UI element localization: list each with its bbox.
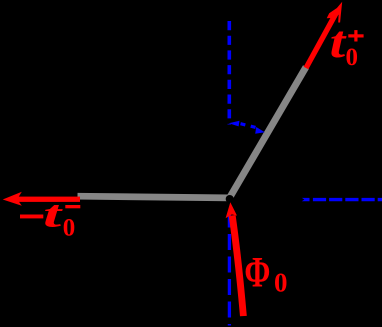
blue dashed vertical line bottom [228,212,231,326]
svg-text:t: t [330,16,347,67]
svg-text:0: 0 [63,214,75,241]
label Phi0 [244,249,287,297]
wire right segment (gray bar at 60 deg) [230,67,307,198]
svg-text:0: 0 [274,268,288,298]
label t0^+ [330,16,364,71]
svg-text:t: t [43,194,63,236]
label -t0^- [20,194,80,242]
svg-text:0: 0 [346,44,359,71]
svg-text:Φ: Φ [244,249,270,296]
blue dashed vertical line top [228,21,232,125]
wire left segment (gray bar) [78,196,230,198]
blue dashed elbow double arrow [229,121,265,134]
red arrow -t0- (left) [3,192,80,206]
node vertex dot [226,195,234,203]
red arrow Phi0 (from below) [226,202,247,316]
red arrow t0+ (upper right) [306,2,342,68]
blue dashed horizontal line right [302,198,382,201]
